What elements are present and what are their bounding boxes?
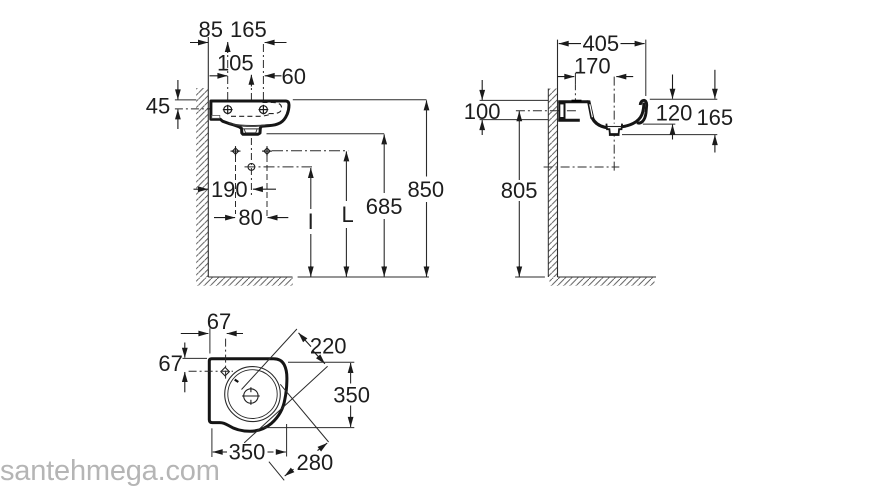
fixing height dash-dot side (516, 110, 577, 112)
basin section: drain stub (606, 124, 622, 135)
tap hole symbol plan (221, 367, 229, 375)
plan outline (209, 359, 287, 432)
basin section: bowl right side (622, 103, 644, 127)
tap hole symbol 2 (259, 105, 269, 115)
dimension line 805 (518, 111, 520, 121)
dimension line 850 (426, 100, 428, 110)
svg-text:L: L (341, 202, 353, 227)
basin bracket slot (212, 115, 220, 118)
svg-text:350: 350 (229, 439, 266, 464)
svg-text:120: 120 (656, 101, 693, 126)
dimension row 80 (214, 217, 235, 219)
dimension 45 (175, 99, 196, 101)
dimension 350 right: line and arrows (350, 363, 352, 373)
diagonal tangent E (269, 462, 284, 481)
basin section: bowl bottom to drain (592, 118, 606, 128)
dimension 100 lines (480, 99, 549, 101)
dimension 165 bottom line (622, 134, 717, 136)
svg-text:405: 405 (582, 31, 619, 56)
svg-text:685: 685 (366, 194, 403, 219)
dimension 170 (558, 76, 575, 78)
dimension 120 arrows (672, 75, 674, 99)
basin inner dashed rim (231, 114, 271, 116)
svg-text:105: 105 (217, 50, 254, 75)
svg-text:67: 67 (207, 309, 231, 334)
svg-text:45: 45 (146, 94, 170, 119)
basin section: bracket (559, 103, 564, 118)
svg-text:santehmega.com: santehmega.com (0, 455, 220, 487)
svg-text:60: 60 (282, 64, 306, 89)
drain circle node (248, 164, 255, 171)
basin section: front rim hook (637, 100, 647, 123)
dimension 120/165 top line (650, 98, 718, 100)
center line fixing hole 1 (235, 156, 237, 214)
dimension 350 bottom: line and arrows (213, 451, 223, 453)
svg-text:100: 100 (464, 99, 501, 124)
dimension 350 right: extensions (288, 361, 354, 363)
connector line basin top to 850 (293, 99, 427, 101)
svg-text:I: I (308, 209, 314, 234)
drain symbol plan (242, 387, 260, 405)
tap center line side (574, 84, 576, 103)
drain height dash-dot line (245, 166, 313, 168)
diagonal tangent A2 (244, 366, 327, 443)
dimension line 685 (383, 134, 385, 144)
floor hatch side (550, 278, 655, 286)
dimension 280 (318, 443, 328, 451)
fixing hole cross 2 (262, 146, 272, 156)
svg-text:850: 850 (407, 177, 444, 202)
svg-text:280: 280 (297, 450, 334, 475)
diagonal tangent D1 (280, 384, 328, 442)
basin section: fixing dash on deck (572, 100, 582, 102)
wall hatch side (548, 89, 557, 278)
svg-text:80: 80 (238, 205, 262, 230)
center line fixing hole 2 (266, 156, 268, 219)
svg-text:165: 165 (696, 105, 733, 130)
dimension 67 top (209, 328, 211, 353)
wall right edge side (557, 40, 559, 277)
basin section: deck bar (558, 100, 588, 103)
fixing hole cross 1 (231, 146, 241, 156)
bowl underside lines (229, 123, 270, 125)
trap center dash-dot side (544, 166, 620, 168)
trap interior front (242, 128, 259, 130)
tap center dash-dot vertical plan (225, 339, 227, 382)
wall left edge side (547, 89, 549, 278)
dimension 67 left (183, 357, 208, 359)
wall hatch front (196, 88, 208, 277)
dimension 220 (299, 333, 312, 347)
dimension row 85/165 (190, 42, 208, 44)
floor line side (515, 276, 545, 278)
diagonal tangent A (242, 329, 297, 390)
svg-text:165: 165 (230, 17, 267, 42)
svg-text:85: 85 (199, 17, 223, 42)
overflow mark (235, 380, 239, 382)
center line tap hole 1 (227, 44, 229, 118)
dimension line I (310, 168, 312, 178)
dimension row 105/60 (210, 75, 228, 77)
center line tap hole 2 (262, 44, 264, 116)
dimension 165 arrows (714, 70, 716, 99)
dimension line L (345, 151, 347, 161)
drain center line side (613, 77, 615, 172)
dimension 120 bottom line (643, 123, 675, 125)
dimension 350 bottom: extensions (211, 428, 213, 457)
bowl rim outer (225, 367, 281, 422)
bowl rim inner (228, 370, 277, 419)
fixing holes dash-dot line (272, 150, 348, 152)
basin section: back bowl wall (587, 100, 595, 118)
connector line basin bottom to 685 (267, 133, 385, 135)
tap hole symbol 1 (223, 105, 233, 115)
center line drain (250, 78, 252, 196)
svg-text:805: 805 (501, 178, 538, 203)
svg-text:350: 350 (333, 382, 370, 407)
floor hatch front (196, 278, 293, 286)
dimension 405 (645, 40, 647, 96)
basin dashed pocket right (263, 103, 282, 114)
tap center dash-dot horizontal plan (189, 370, 233, 372)
svg-text:170: 170 (574, 54, 611, 79)
basin front outline (211, 101, 289, 134)
dimension row 190 (194, 188, 208, 190)
floor line front (208, 276, 292, 278)
svg-text:67: 67 (158, 351, 182, 376)
basin section: bottom bar (558, 119, 580, 122)
svg-text:220: 220 (310, 334, 347, 359)
svg-text:190: 190 (211, 177, 248, 202)
wall line front (207, 37, 209, 277)
